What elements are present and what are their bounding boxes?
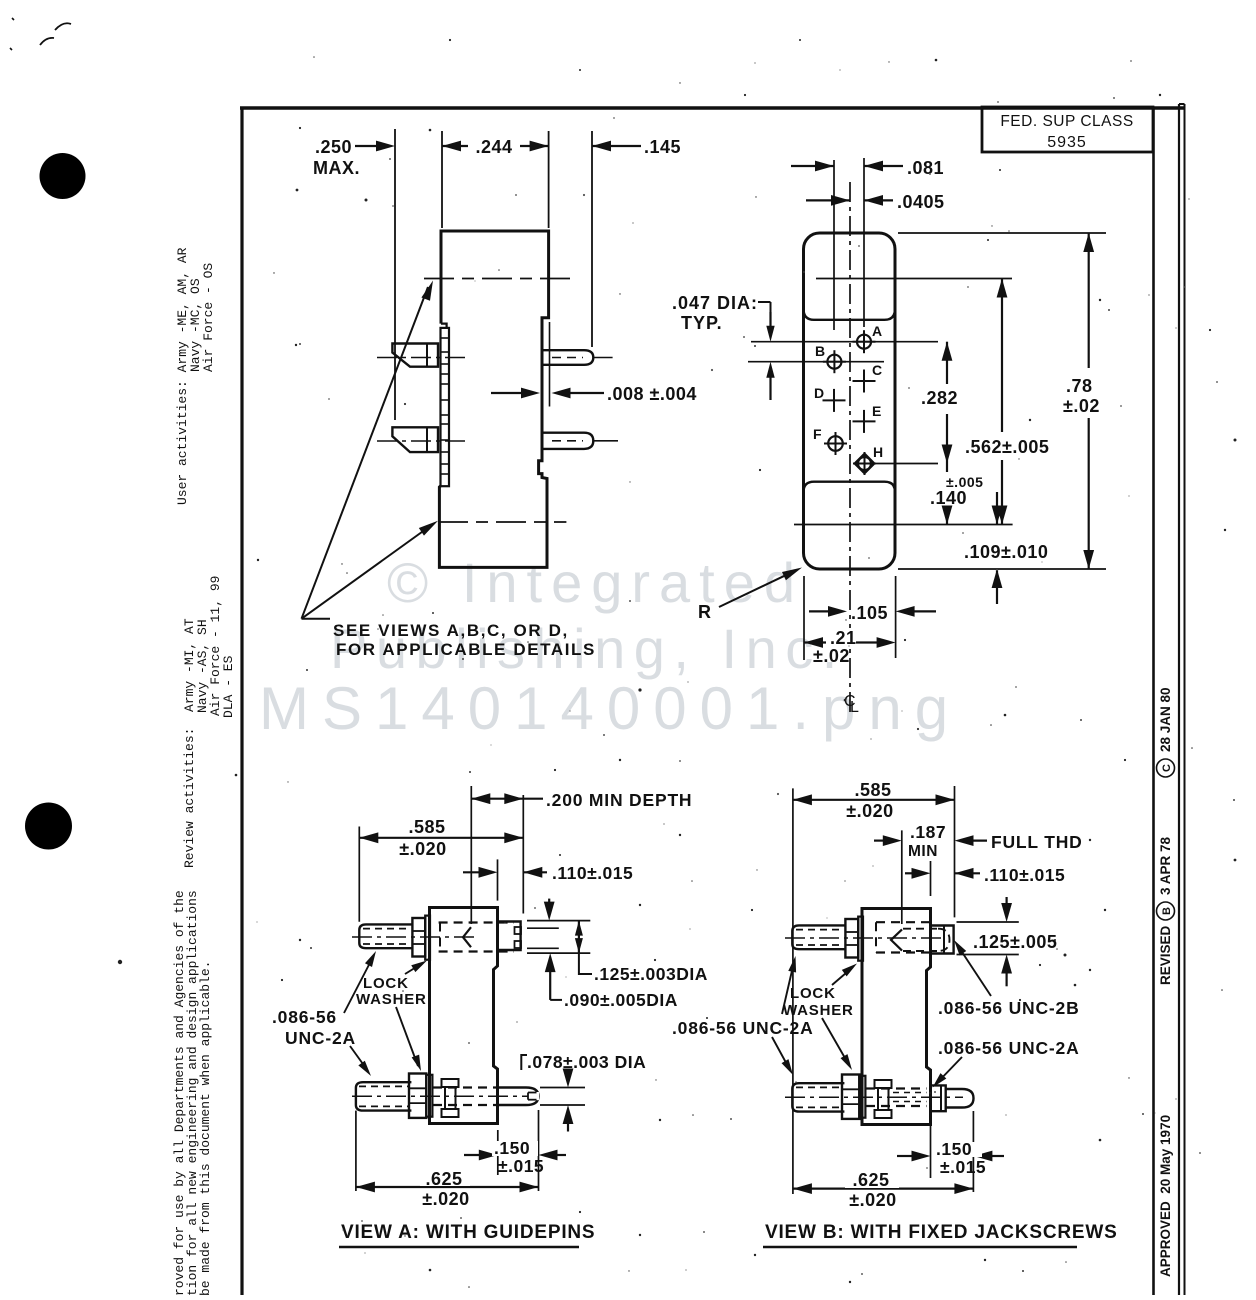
svg-text:VIEW B: WITH FIXED JACKSCREWS: VIEW B: WITH FIXED JACKSCREWS	[765, 1222, 1118, 1243]
page border left	[240, 108, 243, 1295]
svg-text:FED. SUP CLASS: FED. SUP CLASS	[1000, 113, 1133, 130]
svg-text:WASHER: WASHER	[783, 1002, 854, 1019]
svg-text:.081: .081	[907, 158, 944, 178]
svg-text:.150: .150	[936, 1139, 972, 1159]
svg-text:±.020: ±.020	[846, 801, 893, 821]
hole B (circle+cross)	[823, 361, 846, 363]
dimension .145	[592, 145, 641, 147]
view A: lower screw centerline	[352, 1095, 528, 1097]
svg-text:F: F	[813, 426, 822, 442]
revision strip: REVISED B 3 APR 78 (rotated)	[1157, 836, 1175, 985]
svg-text:B: B	[1161, 907, 1173, 915]
svg-text:±.02: ±.02	[1063, 396, 1100, 416]
front view: extension line x for hole column A	[863, 158, 865, 327]
view A: guide pin retention flange	[442, 1079, 459, 1087]
dimension .78 +/-.02	[1088, 233, 1090, 368]
view A: upper jackscrew nut	[412, 918, 425, 957]
svg-text:±.015: ±.015	[940, 1157, 986, 1177]
view A: thread chevron (drill point)	[463, 927, 471, 947]
svg-text:.625: .625	[425, 1169, 462, 1189]
svg-text:APPROVED 20 May 1970: APPROVED 20 May 1970	[1158, 1115, 1173, 1277]
svg-text:.187: .187	[910, 822, 946, 842]
dimension .110 +/-.015 (view B)	[930, 861, 932, 896]
dimension .150 +/-.015 (view A)	[497, 1130, 499, 1175]
svg-text:LOCK: LOCK	[363, 975, 409, 992]
side view: extension line for .250	[394, 129, 396, 420]
view B: lower lock washer	[859, 1076, 865, 1118]
view B: lower jackscrew shaft left	[792, 1083, 844, 1111]
review activities text block (rotated)	[182, 576, 236, 868]
front view: top inset rounded shoulder	[804, 306, 896, 320]
hole A (circle+cross)	[853, 341, 876, 343]
svg-text:±.015: ±.015	[498, 1156, 544, 1176]
svg-text:.008 ±.004: .008 ±.004	[607, 384, 697, 404]
svg-text:.086-56 UNC-2A: .086-56 UNC-2A	[938, 1038, 1080, 1058]
dimension .625 +/-.020 (view A)	[355, 1111, 357, 1191]
svg-text:be made from this document whe: be made from this document when applicab…	[198, 961, 213, 1295]
svg-text:.110±.015: .110±.015	[552, 863, 633, 883]
dimension .187 MIN	[901, 830, 903, 924]
svg-text:TYP.: TYP.	[681, 313, 723, 333]
dimension .140 +/-.005	[946, 464, 948, 525]
view B: lower jackscrew nut	[842, 1075, 859, 1119]
view B: extension line right (boss face)	[954, 786, 956, 917]
svg-text:SEE VIEWS A,B,C, OR D,: SEE VIEWS A,B,C, OR D,	[333, 621, 569, 640]
svg-text:.150: .150	[494, 1138, 530, 1158]
front view: vertical centerline	[849, 182, 851, 716]
svg-text:C: C	[872, 362, 883, 378]
pen scribble top-left corner	[40, 23, 71, 45]
side view: extension line left for .244	[441, 131, 443, 228]
side view: plate segment lines	[441, 337, 450, 339]
front view: extension line x for hole column B	[833, 160, 835, 330]
view A: boss on right (threaded)	[498, 922, 521, 951]
dimension .008 +/-.004 (plate thickness)	[549, 322, 551, 407]
side view: jackscrew head lower	[392, 427, 438, 452]
view B: upper lock washer	[858, 917, 863, 961]
dimension .110 +/-.015 (view A)	[497, 859, 499, 900]
svg-text:.21: .21	[830, 628, 857, 648]
svg-text:.200 MIN DEPTH: .200 MIN DEPTH	[546, 790, 692, 810]
dimension .090 +/-.005 DIA	[545, 953, 556, 972]
dimension .150 +/-.015 (view B)	[930, 1114, 932, 1178]
view B: upper boss (threaded through)	[931, 926, 954, 954]
view B: fixed jackscrew protruding (bullet tip)	[946, 1089, 974, 1108]
dimension .078 +/-.003 DIA	[521, 1055, 527, 1070]
front view: hole A horizontal line	[751, 341, 938, 343]
view A: extension line .585 left	[358, 827, 360, 922]
view A: boss thread relief notches	[515, 927, 522, 934]
svg-text:.086-56 UNC-2B: .086-56 UNC-2B	[938, 998, 1080, 1018]
side view: lower face centerline (dash)	[438, 521, 566, 523]
FED SUP CLASS box	[982, 107, 1153, 152]
view B: lower boss	[931, 1085, 946, 1111]
punch hole top-left	[40, 153, 86, 199]
front view: hole H horizontal line	[873, 463, 938, 465]
side view: extension line right for .244	[548, 131, 550, 228]
dimension .625 +/-.020 (view B)	[793, 1187, 974, 1189]
svg-text:±.02: ±.02	[813, 646, 850, 666]
view B: hidden screw inside body	[866, 1087, 927, 1089]
svg-text:FOR APPLICABLE DETAILS: FOR APPLICABLE DETAILS	[336, 640, 596, 659]
revision strip: C 28 JAN 80 (rotated)	[1157, 687, 1175, 777]
svg-text:.244: .244	[475, 137, 512, 157]
svg-text:B: B	[815, 343, 826, 359]
dimension .105	[895, 576, 897, 658]
front view: upper guide hole cross line	[816, 278, 1012, 280]
svg-text:.585: .585	[408, 817, 445, 837]
front view: lower guide hole cross line	[794, 524, 1013, 526]
view A: connector body outline	[430, 908, 498, 1124]
svg-text:3 APR 78: 3 APR 78	[1158, 836, 1173, 895]
view A: guide pin hidden part	[433, 1086, 498, 1088]
view B: upper jackscrew nut	[845, 919, 858, 958]
svg-text:±.020: ±.020	[399, 839, 446, 859]
svg-text:.086-56 UNC-2A: .086-56 UNC-2A	[672, 1018, 814, 1038]
dimension .562 +/-.005	[1001, 279, 1003, 433]
dimension .585 +/-.020 (view B)	[793, 799, 955, 801]
side view: contact pin upper	[542, 350, 593, 365]
svg-text:±.020: ±.020	[422, 1189, 469, 1209]
dimension .109 +/-.010	[996, 492, 998, 525]
svg-text:C: C	[1161, 764, 1173, 772]
svg-text:.282: .282	[921, 388, 958, 408]
approval note text block (rotated, cut off at bottom)	[172, 890, 213, 1296]
hole F (circle+cross)	[824, 443, 847, 445]
user activities text block (rotated)	[175, 247, 216, 505]
svg-text:.585: .585	[854, 780, 891, 800]
svg-text:L: L	[850, 699, 859, 716]
side view: centerline lower jackscrew/pin	[377, 440, 470, 442]
view A: lower jackscrew shaft	[356, 1082, 412, 1110]
view B: screw tip face line in boss	[943, 926, 945, 954]
side view: small step top-left	[441, 324, 447, 328]
hole C (cross)	[853, 380, 876, 382]
leader lines to SEE VIEWS note	[302, 618, 331, 620]
svg-text:±.020: ±.020	[849, 1190, 896, 1210]
svg-text:.250: .250	[315, 137, 352, 157]
dimension .081	[791, 165, 834, 167]
label FULL THD	[955, 835, 974, 846]
hole D (cross)	[823, 399, 846, 401]
view B: lower screw centerline	[785, 1096, 963, 1098]
svg-text:R: R	[698, 602, 712, 622]
page border right inner (revision strip left edge)	[1152, 108, 1155, 1295]
dimension .200 MIN DEPTH	[471, 798, 523, 800]
view A: upper jackscrew shaft	[359, 924, 412, 948]
svg-text:.125±.005: .125±.005	[973, 932, 1057, 952]
svg-text:.110±.015: .110±.015	[984, 865, 1065, 885]
view A: upper screw centerline	[352, 936, 474, 938]
svg-text:A: A	[872, 323, 883, 339]
svg-text:MIN: MIN	[908, 843, 938, 860]
svg-text:H: H	[873, 444, 884, 460]
view B: long extension line .585/.625 left	[792, 788, 794, 1194]
view A: lower jackscrew nut	[409, 1074, 426, 1118]
svg-text:.086-56: .086-56	[272, 1007, 337, 1027]
side view: connector body outline	[439, 231, 548, 567]
svg-text:.140: .140	[930, 488, 967, 508]
revision strip: APPROVED 20 May 1970 (rotated)	[1158, 1115, 1173, 1277]
svg-text:5935: 5935	[1047, 134, 1087, 151]
svg-text:WASHER: WASHER	[356, 991, 427, 1008]
view A: threaded hole hidden outline	[439, 921, 514, 923]
dimension .21 +/-.02	[803, 576, 805, 660]
svg-text:VIEW A: WITH GUIDEPINS: VIEW A: WITH GUIDEPINS	[341, 1222, 595, 1243]
svg-text:.078±.003 DIA: .078±.003 DIA	[527, 1052, 646, 1072]
svg-text:.125±.003DIA: .125±.003DIA	[594, 964, 708, 984]
svg-text:D: D	[814, 385, 825, 401]
dimension .282	[946, 342, 948, 384]
svg-text:.625: .625	[852, 1170, 889, 1190]
side view: mounting plate edge strip	[441, 328, 450, 486]
front view: hole B horizontal line	[748, 361, 884, 363]
svg-text:E: E	[872, 403, 882, 419]
dimension .125 +/-.005 (view B)	[957, 921, 1019, 923]
side view: centerline upper jackscrew/pin	[377, 357, 470, 359]
.047 leader arrows	[769, 312, 771, 328]
svg-text:.047 DIA:: .047 DIA:	[672, 293, 758, 313]
page border top	[240, 106, 1185, 109]
view B: threaded hole hidden outline	[876, 921, 930, 923]
svg-text:© Integrated: © Integrated	[387, 551, 804, 614]
side view: jackscrew head upper	[392, 344, 438, 367]
svg-text:LOCK: LOCK	[790, 985, 836, 1002]
view A: extension line .200 left (into hole)	[470, 786, 472, 924]
view B: hidden jackscrew head inside hole	[891, 929, 902, 950]
dimension .585 +/-.020 (view A)	[359, 837, 523, 839]
svg-text:28 JAN 80: 28 JAN 80	[1158, 687, 1173, 752]
svg-text:MAX.: MAX.	[313, 158, 360, 178]
page border right outer double line	[1178, 104, 1180, 1295]
hole E (cross)	[853, 420, 876, 422]
svg-text:DLA - ES: DLA - ES	[221, 655, 236, 718]
front view: bottom inset rounded shoulder	[804, 482, 896, 494]
view A: upper lock washer	[425, 916, 430, 960]
dimension .125 extension lines	[527, 920, 590, 922]
svg-text:FULL THD: FULL THD	[991, 832, 1083, 852]
view B: screw retention flange	[875, 1080, 892, 1088]
svg-text:.562±.005: .562±.005	[965, 437, 1049, 457]
svg-text:.105: .105	[851, 603, 888, 623]
view B: connector body outline	[862, 909, 931, 1125]
view B: upper screw centerline	[785, 937, 944, 939]
side view: extension line for .145	[591, 131, 593, 347]
svg-text:.109±.010: .109±.010	[964, 542, 1048, 562]
svg-text:.090±.005DIA: .090±.005DIA	[564, 990, 678, 1010]
view B: upper jackscrew shaft	[792, 925, 845, 949]
view A: guide pin protruding part with slotted tip	[498, 1088, 539, 1106]
side view: contact pin lower	[542, 433, 593, 449]
dimension .0405	[806, 199, 850, 201]
svg-text:.0405: .0405	[897, 192, 945, 212]
scan noise speckles	[999, 169, 1001, 171]
dimension .244	[442, 145, 549, 147]
svg-text:REVISED: REVISED	[1158, 925, 1173, 985]
front view: body rounded rectangle	[804, 233, 896, 569]
side view: upper face centerline (dash)	[424, 278, 572, 280]
hole H (diamond circle cross)	[853, 463, 876, 465]
svg-text:.78: .78	[1066, 376, 1093, 396]
front view: top edge extension line	[898, 232, 1106, 234]
svg-text:Air Force - OS: Air Force - OS	[201, 263, 216, 372]
dimension .125 +/-.003 DIA arrows	[548, 899, 550, 908]
svg-text:UNC-2A: UNC-2A	[285, 1028, 356, 1048]
punch hole mid-left	[25, 803, 72, 850]
front view: bottom edge extension line	[898, 568, 1106, 570]
view B: hidden screw thread minor dashes	[893, 1092, 927, 1094]
svg-text:.145: .145	[644, 137, 681, 157]
view A: extension/reference line right (mating face)	[522, 795, 524, 914]
view A: lower lock washer	[426, 1075, 432, 1117]
